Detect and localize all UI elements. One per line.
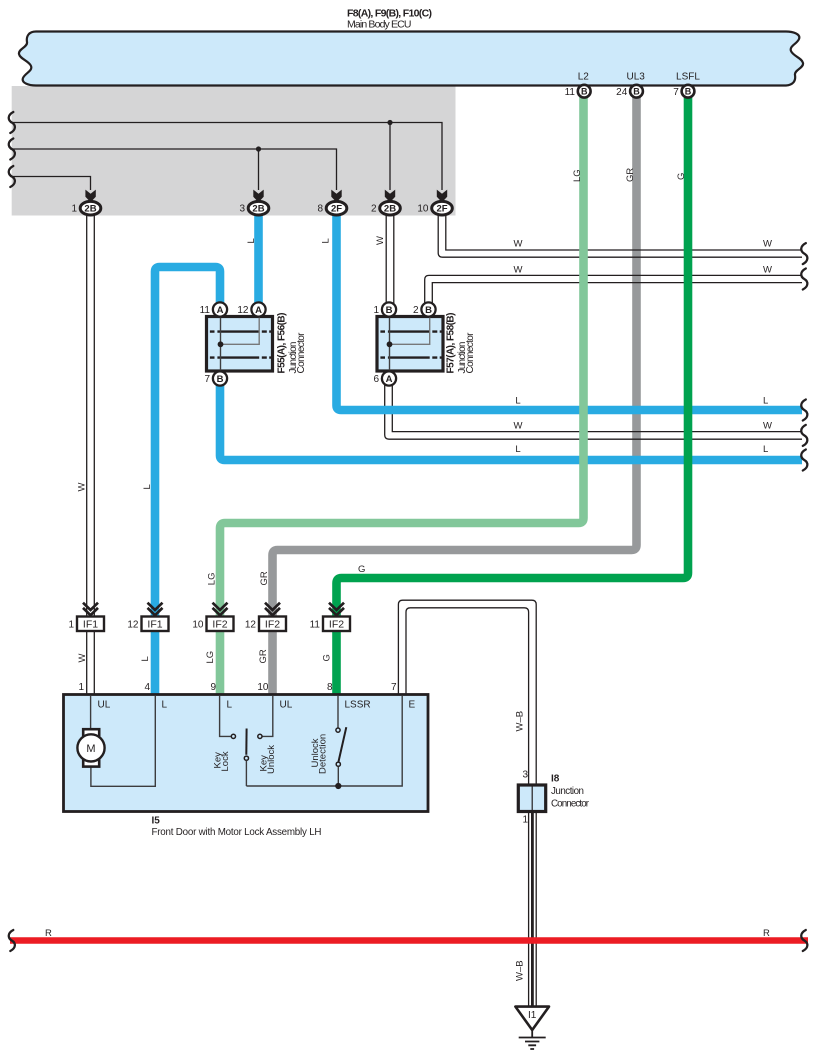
svg-text:10: 10: [417, 204, 429, 215]
svg-text:W: W: [514, 239, 523, 250]
svg-text:1: 1: [373, 305, 379, 316]
wire break squiggle right L2: [801, 450, 807, 471]
wire break squiggle right W1: [801, 243, 807, 264]
node junction dot at 2B-3 branch: [256, 146, 261, 151]
wire drop to 2B-3: [258, 149, 260, 190]
svg-text:1: 1: [71, 204, 77, 215]
svg-text:7: 7: [673, 87, 679, 98]
svg-text:2: 2: [371, 204, 377, 215]
wire color labels: [45, 168, 772, 981]
svg-text:F55(A), F56(B): F55(A), F56(B): [277, 313, 288, 374]
svg-text:2F: 2F: [436, 204, 447, 215]
wire W from 2B-1 down to IF1-1: [87, 214, 95, 695]
svg-text:11: 11: [310, 620, 321, 631]
svg-text:10: 10: [257, 682, 269, 693]
wire W-B from I8 to ground I1: [529, 811, 537, 1007]
svg-text:12: 12: [245, 620, 257, 631]
svg-text:I1: I1: [528, 1010, 537, 1021]
connector 8 2F arrow: [331, 190, 341, 203]
svg-text:6: 6: [373, 374, 379, 385]
svg-text:Junction: Junction: [551, 786, 584, 797]
svg-text:I5: I5: [152, 816, 161, 827]
svg-text:LG: LG: [205, 651, 216, 664]
wire GR (gray) from ECU pin 24 to IF2-12: [273, 95, 637, 695]
connector 2 2B oval: [380, 201, 401, 215]
svg-text:A: A: [255, 305, 262, 316]
svg-text:UL: UL: [98, 700, 111, 711]
svg-text:Connector: Connector: [465, 332, 476, 374]
svg-text:L: L: [140, 656, 151, 661]
svg-text:2B: 2B: [84, 204, 96, 215]
F57 pin 2 B: [421, 302, 435, 316]
wire break squiggle left B: [9, 139, 15, 160]
svg-text:7: 7: [204, 374, 210, 385]
connector IF2 pin 12: [245, 603, 286, 631]
svg-text:LG: LG: [572, 169, 583, 182]
svg-text:A: A: [386, 374, 393, 385]
svg-text:I8: I8: [551, 774, 560, 785]
motor M: [77, 734, 104, 761]
wire G (green) from ECU pin 7 to IF2-11: [337, 95, 689, 695]
wire L (blue) from 2B-3 to F55 pin 12: [254, 214, 263, 305]
connector IF2 pin 10: [192, 603, 233, 631]
svg-text:Front Door with Motor Lock Ass: Front Door with Motor Lock Assembly LH: [152, 827, 322, 838]
svg-text:2B: 2B: [252, 204, 264, 215]
svg-text:12: 12: [237, 305, 249, 316]
svg-text:W: W: [763, 239, 772, 250]
svg-text:10: 10: [192, 620, 204, 631]
key unlock switch fixed contact (pin 10): [263, 696, 273, 736]
unlock detection switch (pin 8): [337, 696, 339, 728]
svg-text:G: G: [322, 654, 333, 661]
svg-text:11: 11: [565, 87, 576, 98]
wire LG (light green) from ECU pin 11 to IF2-10: [220, 95, 584, 695]
svg-text:GR: GR: [625, 168, 636, 182]
wire harness line B (to 2B-3 and 2F-8): [10, 149, 337, 190]
node junction dot at 2B-2 branch: [387, 120, 392, 125]
svg-text:1: 1: [78, 682, 84, 693]
svg-text:GR: GR: [259, 571, 270, 585]
svg-text:2B: 2B: [384, 204, 396, 215]
wire L (blue) from F55 pin 7 to right break: [220, 384, 802, 460]
F55 pin 7 B: [213, 371, 227, 385]
svg-text:Connector: Connector: [551, 799, 590, 810]
wire W from right break to F57 pin 2: [425, 275, 802, 305]
svg-text:M: M: [86, 743, 95, 755]
svg-text:B: B: [386, 305, 393, 316]
svg-text:W–B: W–B: [515, 711, 526, 732]
svg-text:9: 9: [210, 682, 216, 693]
connector IF1 pin 1: [68, 603, 104, 631]
motor M brushes: [83, 729, 99, 737]
svg-text:W: W: [375, 236, 386, 245]
svg-text:UL3: UL3: [627, 72, 646, 83]
bus junction dot: [335, 783, 341, 789]
wire harness line A (to 2B-2 and 2F-10): [10, 123, 442, 191]
door assembly I5 box: [64, 695, 429, 812]
svg-text:Lock: Lock: [220, 751, 231, 771]
junction connector I8: [518, 785, 545, 812]
svg-text:8: 8: [327, 682, 333, 693]
svg-text:W–B: W–B: [515, 960, 526, 981]
gray harness box: [12, 86, 456, 216]
ECU pin 7 B circle: [682, 85, 695, 98]
wire W from 2B-2 down to F57 pin 1: [386, 214, 394, 305]
svg-text:G: G: [358, 564, 365, 575]
wire L (blue) from 2F-8 to right break: [337, 214, 803, 410]
junction connector F55/F56 box: [207, 310, 273, 378]
svg-text:4: 4: [144, 682, 150, 693]
svg-text:L: L: [227, 700, 233, 711]
wire W from F57 pin 6 to right break: [385, 385, 802, 439]
connector 3 2B oval: [248, 201, 269, 215]
svg-text:Unlock: Unlock: [266, 745, 277, 774]
svg-text:L: L: [246, 238, 257, 243]
ground I1: [515, 1007, 549, 1030]
svg-text:11: 11: [200, 305, 211, 316]
switch common bus to pin E: [246, 696, 402, 786]
F57 pin 1 B: [382, 302, 396, 316]
svg-text:IF2: IF2: [265, 619, 280, 631]
svg-text:W: W: [763, 420, 772, 431]
svg-text:UL: UL: [280, 700, 293, 711]
svg-text:B: B: [581, 87, 588, 97]
svg-text:1: 1: [68, 620, 74, 631]
svg-text:3: 3: [239, 204, 245, 215]
svg-text:IF2: IF2: [212, 619, 227, 631]
svg-text:Detection: Detection: [318, 734, 329, 774]
connector 10 2F oval: [432, 201, 453, 215]
svg-text:L: L: [515, 444, 520, 455]
wire break squiggle left A: [9, 112, 15, 133]
svg-text:L: L: [763, 444, 768, 455]
svg-text:2: 2: [413, 305, 419, 316]
svg-text:2F: 2F: [331, 204, 342, 215]
pin stub L (4) to motor bottom: [91, 696, 155, 786]
wire break squiggle left C: [9, 166, 15, 187]
connector 10 2F arrow: [437, 190, 447, 203]
wire break squiggle red left: [9, 930, 15, 951]
svg-text:L: L: [321, 238, 332, 243]
svg-text:1: 1: [522, 815, 528, 826]
svg-text:LSFL: LSFL: [676, 72, 700, 83]
ECU pin 24 B circle: [630, 85, 643, 98]
svg-text:B: B: [425, 305, 432, 316]
svg-text:GR: GR: [258, 649, 269, 663]
svg-text:W: W: [514, 420, 523, 431]
svg-text:B: B: [685, 87, 692, 97]
svg-text:L: L: [515, 396, 520, 407]
svg-text:12: 12: [127, 620, 139, 631]
svg-text:F57(A), F58(B): F57(A), F58(B): [446, 313, 457, 374]
svg-text:R: R: [45, 928, 52, 939]
wire L (blue) from F55 pin 11 to IF1-12: [155, 267, 220, 695]
svg-text:LSSR: LSSR: [345, 700, 371, 711]
connector 1 2B oval: [80, 201, 101, 215]
svg-text:L2: L2: [578, 72, 590, 83]
F55 pin 11 A: [213, 302, 227, 316]
svg-text:L: L: [162, 700, 168, 711]
wire W from 2F-10 to right break: [438, 214, 802, 257]
wire break squiggle red right: [801, 930, 807, 951]
svg-text:Connector: Connector: [296, 332, 307, 374]
svg-text:R: R: [763, 928, 770, 939]
connector 2 2B arrow: [385, 190, 395, 203]
svg-text:Main Body ECU: Main Body ECU: [347, 19, 412, 31]
Main Body ECU band: [19, 32, 803, 86]
junction connector F57/F58 box: [377, 310, 443, 378]
F57 pin 6 A: [382, 371, 396, 385]
svg-text:W: W: [514, 264, 523, 275]
svg-text:G: G: [676, 173, 687, 180]
wire drop to 2B-2: [389, 123, 391, 191]
svg-text:IF1: IF1: [83, 619, 98, 631]
pin stub UL (1): [90, 696, 92, 729]
svg-text:IF2: IF2: [329, 619, 344, 631]
wire break squiggle right W2: [801, 269, 807, 290]
svg-text:W: W: [77, 654, 88, 663]
svg-text:24: 24: [616, 87, 628, 98]
svg-text:W: W: [77, 483, 88, 492]
connector 1 2B arrow: [85, 190, 95, 203]
key lock/unlock switch arm: [245, 729, 247, 755]
svg-text:3: 3: [522, 770, 528, 781]
svg-text:A: A: [217, 305, 224, 316]
wire break squiggle right L1: [801, 400, 807, 421]
connector 8 2F oval: [326, 201, 347, 215]
svg-text:8: 8: [317, 204, 323, 215]
svg-text:W: W: [763, 264, 772, 275]
key lock switch fixed contact (pin 9): [220, 696, 231, 736]
wire W from door pin E up and over to I8: [398, 600, 536, 786]
connector IF1 pin 12: [127, 603, 168, 631]
connector IF2 pin 11: [310, 603, 350, 631]
wire R (red) EWD power line: [10, 937, 808, 944]
svg-text:7: 7: [391, 682, 397, 693]
connector 3 2B arrow: [253, 190, 263, 203]
svg-text:E: E: [409, 700, 416, 711]
ECU pin 11 B circle: [578, 85, 591, 98]
svg-text:L: L: [142, 484, 153, 489]
wire harness line C (to 2B-1): [10, 177, 91, 191]
svg-text:B: B: [633, 87, 640, 97]
F55 pin 12 A: [251, 302, 265, 316]
svg-text:B: B: [217, 374, 224, 385]
wire break squiggle right W3: [801, 425, 807, 446]
svg-text:IF1: IF1: [147, 619, 162, 631]
svg-text:LG: LG: [207, 573, 218, 586]
svg-text:L: L: [763, 396, 768, 407]
